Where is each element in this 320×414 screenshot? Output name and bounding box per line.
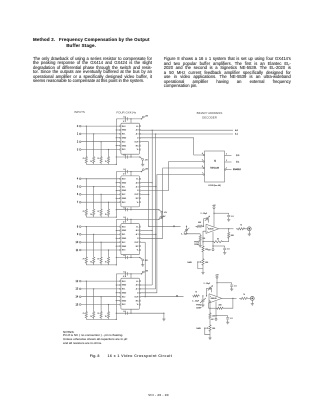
U3 V+ top pin stub — [130, 219, 132, 223]
svg-text:GND: GND — [122, 198, 127, 200]
svg-text:75: 75 — [97, 211, 99, 213]
wire U5 ENABLE stub — [226, 169, 232, 171]
svg-text:4: 4 — [77, 178, 79, 181]
wire V- bypass stub U6 — [213, 245, 225, 247]
wire 220 to gain pot U7 — [209, 320, 211, 323]
potentiometer 500 gain adjust U6 — [202, 257, 204, 267]
U1 left pin squares — [120, 126, 121, 127]
svg-text:GAIN: GAIN — [196, 327, 201, 330]
U2 V+ top pin stub — [130, 172, 132, 176]
junction shunt trimmer tap U7 — [202, 295, 203, 296]
resistor 220 gain set U6 — [202, 245, 204, 254]
U2 V- bottom pin stub — [130, 207, 132, 210]
vertical output bus 1 (U1,U2 to amplifier A) — [148, 142, 150, 227]
wire U1 GND pin row 6 — [116, 145, 119, 147]
junction shunt chain tap U6 — [186, 226, 187, 227]
svg-text:COMP: COMP — [196, 307, 202, 309]
U2 right pin squares — [140, 178, 141, 179]
svg-text:9: 9 — [77, 233, 79, 236]
svg-text:7: 7 — [202, 172, 203, 174]
svg-text:75: 75 — [195, 292, 197, 294]
ground rail for U3 input terminations — [86, 264, 116, 266]
svg-text:100: 100 — [202, 238, 205, 240]
ground below V- bypass cap U6 — [223, 252, 226, 254]
ground rail for U4 input terminations — [86, 318, 116, 320]
ground below V+ bypass cap U7 — [230, 288, 233, 290]
wire U2 OUT stub — [141, 193, 149, 195]
wire to +6V terminal U4 — [142, 273, 143, 274]
svg-text:LS139 (5ns tW): LS139 (5ns tW) — [208, 184, 221, 187]
svg-text:74HC139: 74HC139 — [210, 167, 220, 169]
wire to -6V terminal U1 — [140, 157, 142, 159]
op-amp U7 NE5539 triangle — [209, 294, 222, 303]
junction V+ wire right end U1 — [141, 118, 142, 119]
+6V terminal for U7 — [216, 276, 218, 278]
U4 V+ supply wire — [116, 273, 141, 275]
svg-text:2 - 10pF: 2 - 10pF — [203, 283, 211, 285]
svg-text:GND: GND — [122, 130, 127, 132]
junction GND pin row 4 U3 — [116, 238, 117, 239]
svg-text:GND: GND — [122, 145, 127, 147]
wire pot wiper to bottom U6 — [198, 262, 203, 269]
svg-text:B 0: B 0 — [236, 155, 240, 157]
svg-text:0.1: 0.1 — [123, 207, 126, 209]
resistor 75 ohm termination input 1 — [93, 155, 95, 165]
svg-text:A 0: A 0 — [235, 129, 239, 132]
pot wiper arrow U7 — [205, 327, 208, 329]
svg-text:IN 0: IN 0 — [122, 179, 125, 181]
junction GND pin row 2 U4 — [116, 284, 117, 285]
svg-text:V+: V+ — [136, 179, 139, 181]
op-amp U6 EL2020 triangle — [206, 224, 219, 233]
U2 left pin squares — [120, 178, 121, 179]
capacitor 0.1uF bypass on U4 V- wire — [125, 312, 127, 315]
resistor 75 ohm termination input 5 — [93, 208, 95, 218]
U4 V+ top pin stub — [130, 274, 132, 278]
wire feedback bottom U6 — [228, 240, 230, 242]
capacitor 0.1uF V+ bypass U7 — [230, 284, 233, 286]
junction V- wire right end U4 — [163, 313, 164, 314]
wire input 10 to U3 — [81, 241, 120, 243]
wire shunt trimmer lead U6 — [186, 226, 188, 229]
svg-text:75: 75 — [90, 214, 92, 216]
ground below gain pot U7 — [208, 337, 211, 339]
svg-text:430: 430 — [231, 235, 234, 237]
svg-text:OUT: OUT — [135, 242, 140, 244]
wire input 12 to U4 — [81, 280, 120, 282]
wire inverting input stub U6 — [203, 231, 206, 242]
svg-text:D: D — [137, 138, 139, 140]
junction V+ wire to pin stub U2 — [130, 171, 131, 172]
junction A1 line to distribution bus — [155, 133, 156, 134]
capacitor 0.1uF bypass on U1 V- wire — [125, 155, 127, 158]
wire pot to ground U7 — [209, 333, 211, 338]
svg-text:OUT: OUT — [135, 141, 140, 143]
wire input 7 drop to termination resistor — [108, 202, 110, 207]
junction rail to ground line U4 — [116, 319, 117, 320]
svg-text:IN 0: IN 0 — [122, 226, 125, 228]
svg-text:2: 2 — [226, 153, 227, 155]
capacitor 0.1uF bypass on U3 V- wire — [125, 256, 127, 259]
wire 220 to gain pot U6 — [202, 254, 204, 258]
wire input 13 drop to termination resistor — [93, 289, 95, 310]
resistor 75 ohm termination input 4 — [85, 208, 87, 218]
vertical A0 distribution wire — [151, 130, 153, 285]
junction V+ wire right end U4 — [141, 273, 142, 274]
svg-text:11: 11 — [76, 249, 79, 252]
wire input 0 drop to termination resistor — [85, 126, 87, 155]
ground below shunt trimmer U7 — [201, 304, 204, 306]
junction comp node U6 — [202, 241, 203, 242]
svg-text:0.1: 0.1 — [123, 116, 126, 118]
wire +6V bypass stub U6 — [214, 212, 229, 214]
svg-text:GND: GND — [122, 182, 127, 184]
U3 right pin squares — [140, 226, 141, 227]
series resistor input U6 — [196, 225, 204, 227]
resistor 430 feedback U6 — [228, 231, 230, 240]
wire output to connector U7 — [249, 297, 250, 299]
svg-text:14: 14 — [76, 296, 79, 299]
svg-text:A 0: A 0 — [136, 129, 139, 132]
wire gain leg down U7 — [209, 308, 211, 311]
svg-text:IN 2: IN 2 — [122, 194, 125, 196]
wire 82 to comp node U6 — [224, 241, 229, 243]
wire to -6V terminal U2 — [159, 210, 161, 212]
capacitor 0.1uF V- bypass U7 — [226, 317, 229, 319]
svg-text:12: 12 — [76, 280, 79, 283]
resistor 75 ohm termination input 8 — [85, 255, 87, 265]
svg-text:2: 2 — [77, 141, 79, 144]
U5 enable pin bubble — [225, 169, 226, 170]
wire +6V to U7 V+ pin — [216, 278, 218, 296]
ground vertical line U3 — [115, 219, 117, 265]
heading Method 2 — [33, 38, 55, 43]
svg-text:IN 2: IN 2 — [122, 141, 125, 143]
wire U1 OUT stub — [141, 141, 149, 143]
wire V- bypass cap to ground U6 — [224, 250, 226, 253]
svg-text:GND: GND — [122, 238, 127, 240]
wire A0 stub to U4 — [141, 284, 153, 286]
wire U1 GND pin row 2 — [116, 129, 119, 131]
svg-text:V+: V+ — [136, 126, 139, 128]
wire output bus 1 to amplifier A input — [149, 225, 181, 227]
figure caption — [90, 354, 172, 358]
wire input 14 drop to termination resistor — [100, 297, 102, 310]
trimmer capacitor 2-10pF input shunt U7 — [201, 299, 204, 301]
junction V- wire right end U1 — [139, 156, 140, 157]
resistor 430 feedback U7 — [216, 307, 225, 309]
wire input 3 drop to termination resistor — [108, 150, 110, 155]
wire input 11 drop to termination resistor — [108, 250, 110, 255]
-6V terminal U1 — [142, 159, 144, 161]
junction GND pin row 4 U1 — [116, 137, 117, 138]
ground symbol below -6V terminal U3 — [142, 261, 144, 265]
svg-text:DECODER: DECODER — [202, 115, 217, 119]
svg-text:A 1: A 1 — [136, 133, 139, 136]
svg-text:75: 75 — [97, 259, 99, 261]
junction V+ wire to pin stub U3 — [130, 219, 131, 220]
svg-text:IN 0: IN 0 — [122, 126, 125, 128]
wire pot to ground U6 — [202, 267, 204, 272]
wire input 9 to U3 — [81, 233, 120, 235]
wire input 6 drop to termination resistor — [100, 194, 102, 207]
svg-text:75: 75 — [83, 313, 85, 315]
ground rail for U2 input terminations — [86, 216, 116, 218]
junction GND pin row 2 U1 — [116, 129, 117, 130]
U1 V+ top pin stub — [130, 119, 132, 123]
svg-text:75: 75 — [90, 262, 92, 264]
svg-text:D: D — [137, 293, 139, 295]
ground below output connector U6 — [248, 233, 251, 235]
svg-text:+6V: +6V — [215, 275, 219, 277]
resistor 75 ohm termination input 9 — [93, 255, 95, 265]
svg-text:IN 1: IN 1 — [122, 289, 125, 291]
junction +6V bypass tap U7 — [216, 282, 217, 283]
ground below output connector U7 — [251, 303, 254, 305]
svg-text:OUT: OUT — [135, 194, 140, 196]
junction A1 stub U3 — [155, 234, 156, 235]
U4 V- supply wire — [116, 312, 164, 314]
svg-text:10: 10 — [76, 241, 79, 244]
U3 V- supply wire — [116, 257, 140, 259]
svg-text:IN 2: IN 2 — [122, 242, 125, 244]
svg-text:B 1: B 1 — [236, 162, 240, 164]
svg-text:GND: GND — [122, 285, 127, 287]
svg-text:IN 3: IN 3 — [122, 250, 125, 252]
resistor 75 ohm termination input 2 — [100, 155, 102, 165]
svg-text:U 4: U 4 — [123, 276, 126, 278]
wire A1 stub to U2 — [141, 186, 156, 188]
wire U2 GND pin row 6 — [116, 197, 119, 199]
ground below V+ bypass cap U6 — [227, 218, 230, 220]
wire U3 GND pin row 2 — [116, 230, 119, 232]
wire feedback node horizontal U7 — [209, 307, 216, 309]
wire input 8 to U3 — [81, 226, 120, 228]
ground symbol below -6V terminal U1 — [142, 160, 144, 164]
wire V- bypass cap to ground U7 — [227, 320, 229, 323]
svg-text:A 1: A 1 — [136, 185, 139, 188]
ground below gain pot U6 — [201, 271, 204, 273]
junction V- wire to pin stub U3 — [130, 257, 131, 258]
svg-text:+6V: +6V — [145, 116, 149, 118]
svg-text:−: − — [207, 232, 208, 234]
wire input 5 to U2 — [81, 186, 120, 188]
svg-text:INPUTS: INPUTS — [74, 110, 85, 114]
junction V- wire right end U2 — [158, 209, 159, 210]
resistor 75 ohm termination input 7 — [107, 208, 109, 218]
wire output node U7 — [222, 297, 237, 299]
ground vertical line U4 — [115, 274, 117, 320]
+6V terminal U3 — [160, 217, 162, 219]
junction GND pin row 6 U4 — [116, 300, 117, 301]
junction V- bypass tap U6 — [212, 245, 213, 246]
wire output node U6 — [219, 228, 234, 230]
wire input 6 to U2 — [81, 193, 120, 195]
junction GND pin row 2 U3 — [116, 230, 117, 231]
U1 V+ supply wire — [116, 118, 141, 120]
wire input 2 to U1 — [81, 141, 120, 143]
junction input 1 termination tap — [93, 133, 94, 134]
resistor 75 ohm termination input 10 — [100, 255, 102, 265]
svg-text:1: 1 — [77, 133, 79, 136]
-6V terminal U2 — [161, 211, 163, 213]
svg-text:75: 75 — [105, 316, 107, 318]
resistor 75 ohm termination input 0 — [85, 155, 87, 165]
U1 V- supply wire — [116, 156, 140, 158]
svg-text:0.1: 0.1 — [123, 169, 126, 171]
svg-text:A 1: A 1 — [136, 233, 139, 236]
svg-text:IN 3: IN 3 — [122, 202, 125, 204]
junction rail to ground line U3 — [116, 264, 117, 265]
wire input 4 drop to termination resistor — [85, 179, 87, 208]
svg-text:75: 75 — [243, 294, 245, 296]
wire U5 output Y2 to U3 enable pin — [141, 168, 203, 238]
svg-text:FOUR GX414s: FOUR GX414s — [116, 111, 136, 115]
potentiometer 500 gain adjust U7 — [209, 323, 211, 333]
svg-text:0.1: 0.1 — [123, 155, 126, 157]
resistor 75 ohm termination input 6 — [100, 208, 102, 218]
wire inverting input stub U7 — [209, 301, 210, 308]
body text left column — [33, 57, 152, 84]
svg-text:+6V: +6V — [145, 168, 149, 170]
svg-text:V-: V- — [137, 250, 139, 252]
svg-text:0.1: 0.1 — [230, 318, 233, 320]
wire U4 GND pin row 2 — [116, 284, 119, 286]
svg-text:0.1: 0.1 — [227, 249, 230, 251]
svg-text:75: 75 — [83, 259, 85, 261]
svg-text:V-: V- — [137, 149, 139, 151]
svg-text:4: 4 — [202, 153, 203, 155]
svg-text:U 1: U 1 — [123, 121, 126, 123]
junction V- wire to pin stub U1 — [130, 156, 131, 157]
wire input 14 to U4 — [81, 296, 120, 298]
wire V- bypass stub U7 — [216, 315, 228, 317]
resistor 75 ohm termination input 11 — [107, 255, 109, 265]
wire U5 output Y0 to U1 enable pin — [141, 138, 203, 155]
wire A1 stub to U4 — [141, 288, 156, 290]
wire U3 GND pin row 4 — [116, 237, 119, 239]
U5 output pin bubble Y2 — [203, 167, 204, 168]
resistor 75 ohm termination input 3 — [107, 155, 109, 165]
junction input 8 termination tap — [86, 226, 87, 227]
+6V terminal U4 — [142, 271, 144, 273]
wire U5 output Y1 to U2 enable pin — [141, 162, 203, 191]
svg-text:NC: NC — [136, 300, 139, 302]
svg-text:GAIN: GAIN — [187, 261, 192, 264]
capacitor 0.1uF bypass on U3 V+ wire — [125, 218, 127, 221]
svg-text:0.1: 0.1 — [123, 311, 126, 313]
svg-text:75: 75 — [105, 161, 107, 163]
svg-text:D: D — [137, 190, 139, 192]
wire pot wiper to bottom U7 — [205, 328, 210, 335]
svg-text:GND: GND — [122, 230, 127, 232]
wire U4 GND pin row 6 — [116, 300, 119, 302]
svg-text:3: 3 — [77, 148, 79, 151]
svg-text:NC: NC — [136, 145, 139, 147]
junction input 15 termination tap — [108, 304, 109, 305]
svg-text:8: 8 — [77, 225, 79, 228]
wire bypass cap to ground U6 — [228, 217, 230, 219]
junction GND pin row 6 U3 — [116, 245, 117, 246]
U1 V- bottom pin stub — [130, 154, 132, 157]
trimmer arrow U6 — [205, 216, 210, 221]
decoder ic U5 74HC139 box — [205, 151, 225, 182]
wire freq comp stub U7 — [208, 303, 210, 309]
svg-text:V-: V- — [137, 202, 139, 204]
svg-text:GND: GND — [122, 246, 127, 248]
wire input 1 to U1 — [81, 133, 120, 135]
svg-text:IN 1: IN 1 — [122, 134, 125, 136]
junction input 9 termination tap — [93, 234, 94, 235]
wire U6 V- pin down — [212, 232, 214, 246]
U5 output pin bubble Y1 — [203, 161, 204, 162]
junction V- wire right end U3 — [139, 257, 140, 258]
trimmer capacitor 2-10pF comp network U6 — [185, 228, 188, 230]
junction V+ wire right end U3 — [158, 219, 159, 220]
svg-text:75: 75 — [83, 158, 85, 160]
junction input 5 termination tap — [93, 186, 94, 187]
capacitor 0.1uF bypass on U1 V+ wire — [125, 117, 127, 120]
svg-text:D: D — [137, 238, 139, 240]
svg-text:6: 6 — [77, 193, 79, 196]
junction V- wire left end U4 — [116, 313, 117, 314]
svg-text:1: 1 — [226, 167, 227, 169]
ground rail for U1 input terminations — [86, 163, 116, 165]
junction input 4 termination tap — [86, 178, 87, 179]
wire feedback down U6 — [228, 229, 230, 231]
wire input 15 to U4 — [81, 304, 120, 306]
svg-text:75: 75 — [90, 161, 92, 163]
input tap connector U6 — [173, 226, 174, 227]
junction input 2 termination tap — [100, 141, 101, 142]
svg-text:13: 13 — [76, 288, 79, 291]
-6V terminal U3 — [142, 259, 144, 261]
svg-text:500: 500 — [205, 262, 208, 264]
svg-text:0: 0 — [77, 125, 79, 128]
ground vertical line U2 — [115, 172, 117, 218]
wire address line A0 — [141, 129, 233, 131]
op-amp ic U2 GX414 crosspoint switch box — [121, 176, 140, 207]
svg-text:+6V: +6V — [212, 205, 216, 207]
resistor 82 feedback lower leg U6 — [212, 241, 224, 243]
svg-text:7: 7 — [77, 201, 79, 204]
wire bypass cap to ground U7 — [231, 287, 233, 289]
svg-text:OUT: OUT — [135, 296, 140, 298]
svg-text:A 1: A 1 — [235, 133, 239, 136]
junction V- wire left end U2 — [116, 209, 117, 210]
wire shunt trimmer lead U7 — [202, 296, 204, 300]
trimmer capacitor 2-10pF compensation U6 — [208, 219, 210, 223]
resistor 75 ohm termination input 13 — [93, 310, 95, 320]
svg-text:½: ½ — [214, 159, 216, 163]
svg-text:A 0: A 0 — [136, 284, 139, 287]
wire input 15 drop to termination resistor — [108, 305, 110, 310]
wire input 13 to U4 — [81, 288, 120, 290]
ground below comp network U6 — [199, 243, 201, 245]
U4 left pin squares — [120, 281, 121, 282]
wire U5 input B1 stub — [225, 161, 232, 163]
junction V+ wire to pin stub U4 — [130, 273, 131, 274]
svg-text:V-: V- — [137, 304, 139, 306]
-6V terminal U6 — [212, 246, 214, 249]
svg-text:220: 220 — [212, 315, 215, 317]
svg-text:IN 0: IN 0 — [122, 281, 125, 283]
svg-text:0.1: 0.1 — [123, 271, 126, 273]
wire U1 GND pin row 4 — [116, 137, 119, 139]
resistor 75 ohm termination input 14 — [100, 310, 102, 320]
wire output to connector U6 — [246, 228, 247, 230]
svg-text:75: 75 — [240, 224, 242, 226]
